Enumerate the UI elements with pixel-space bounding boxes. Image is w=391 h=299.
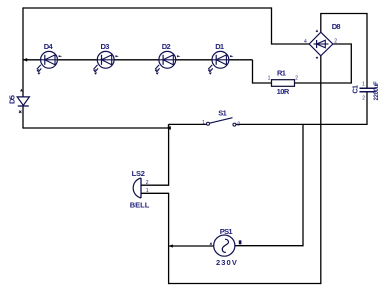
svg-text:D8: D8: [332, 22, 341, 31]
wire C1 bottom to switch rail: [366, 92, 368, 125]
wire bell branch lower: [141, 193, 169, 284]
AC source PS1: [210, 227, 242, 267]
wire D1 to R1 link: [253, 60, 272, 83]
LED D2: [155, 42, 181, 75]
wire bridge bottom vertical: [320, 56, 322, 284]
wire bottom-left rail: [23, 127, 168, 129]
wire PS1 right: [235, 125, 303, 246]
svg-text:BELL: BELL: [130, 200, 150, 209]
wire LED row: [23, 58, 253, 62]
wire switch rail left: [169, 123, 207, 125]
svg-text:R1: R1: [277, 68, 286, 77]
svg-text:S1: S1: [218, 109, 226, 118]
LED D4: [36, 42, 62, 75]
svg-text:1: 1: [268, 76, 271, 82]
svg-text:1: 1: [146, 188, 149, 194]
bell LS2: [130, 169, 150, 209]
svg-text:2: 2: [334, 39, 337, 45]
capacitor C1: [353, 81, 380, 102]
svg-text:230V: 230V: [216, 258, 238, 267]
wire top rail right drop to bridge left: [272, 7, 310, 44]
wire bottom rail: [169, 283, 321, 285]
wire top rail: [23, 7, 272, 9]
svg-text:C1: C1: [353, 85, 360, 94]
svg-text:D1: D1: [215, 42, 224, 51]
svg-text:2200uF: 2200uF: [374, 81, 380, 101]
diode D5: [8, 89, 30, 113]
svg-text:4: 4: [304, 39, 307, 45]
wire PS1 left: [169, 245, 214, 247]
wire bell branch upper: [141, 124, 169, 185]
svg-text:1: 1: [202, 120, 205, 126]
switch S1: [202, 109, 240, 128]
resistor R1: [268, 68, 299, 96]
svg-text:2: 2: [146, 180, 149, 186]
svg-text:D2: D2: [162, 42, 171, 51]
svg-text:2: 2: [295, 76, 298, 82]
svg-text:1: 1: [362, 82, 365, 88]
wire switch rail right: [236, 123, 367, 125]
svg-text:D3: D3: [101, 42, 110, 51]
svg-text:LS2: LS2: [132, 169, 145, 178]
bridge rectifier D8: [304, 22, 340, 59]
junction arrow at bell tap: [166, 124, 171, 129]
svg-text:PS1: PS1: [220, 227, 233, 236]
svg-text:10R: 10R: [277, 87, 290, 96]
wire left rail upper segment: [22, 7, 24, 97]
LED D3: [93, 42, 119, 75]
svg-text:2: 2: [237, 121, 240, 127]
wire R1 right to bridge: [295, 44, 352, 83]
wire left rail lower segment: [22, 106, 24, 128]
svg-text:D5: D5: [8, 95, 17, 104]
LED D1: [208, 42, 234, 75]
wire bridge top to right rail: [321, 14, 367, 89]
arrowhead junction PS1 left wire: [169, 244, 173, 247]
svg-text:2: 2: [362, 96, 365, 102]
